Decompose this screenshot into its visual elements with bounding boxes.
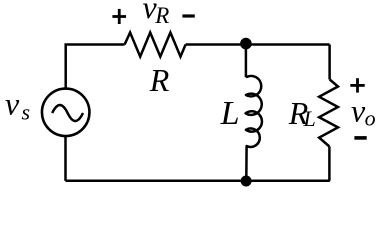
plus sign of vR <box>112 9 126 24</box>
minus sign of vo <box>354 136 366 140</box>
voltage source sine wave <box>52 105 83 121</box>
svg-text:s: s <box>22 100 31 125</box>
minus sign of vR <box>182 14 194 17</box>
node junction dot bottom <box>241 176 252 187</box>
node junction dot top <box>240 38 252 50</box>
wire middle top: junction down to inductor L <box>245 45 248 78</box>
wire top-left: source top to top-left corner to resistor R <box>66 45 125 89</box>
inductor L <box>246 76 262 181</box>
svg-text:L: L <box>303 106 316 131</box>
svg-text:v: v <box>5 86 20 122</box>
wire left bottom: bottom-left corner up to source <box>64 136 67 181</box>
resistor R_L <box>319 80 338 147</box>
wire bottom: bottom-right corner to bottom-left corner <box>66 180 330 183</box>
svg-text:R: R <box>149 62 170 98</box>
svg-text:R: R <box>154 3 169 28</box>
svg-text:o: o <box>365 106 376 131</box>
voltage source Vs circle <box>42 89 90 137</box>
plus sign of vo <box>350 78 364 92</box>
resistor R <box>125 33 186 57</box>
wire top: resistor R to top-right corner <box>186 43 330 46</box>
svg-text:L: L <box>220 95 240 132</box>
wire right bottom: R_L to bottom-right corner <box>328 147 331 181</box>
wire right top: corner down to R_L <box>328 45 331 80</box>
